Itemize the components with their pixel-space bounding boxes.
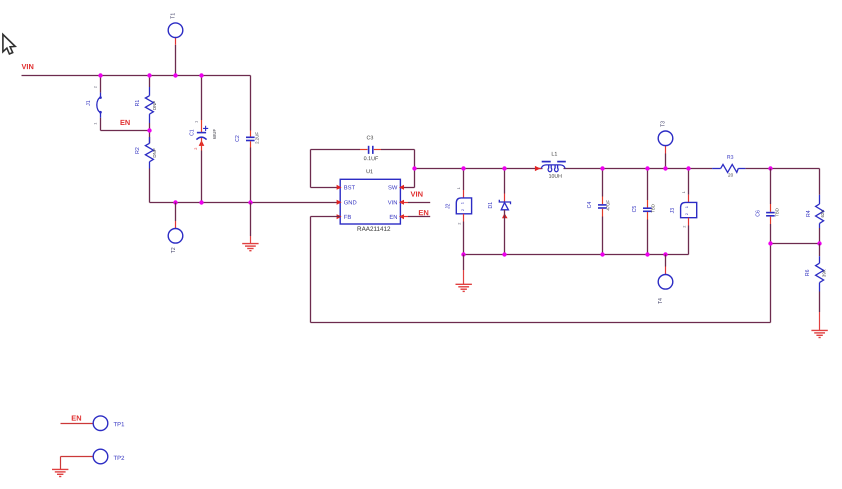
wire FB riser [310, 217, 312, 323]
svg-text:J3: J3 [670, 208, 676, 214]
svg-text:TP1: TP1 [113, 422, 125, 428]
svg-text:SW: SW [388, 185, 398, 191]
ground (input GND) [242, 203, 258, 251]
junction dots on left GND rail [173, 200, 252, 204]
capacitor C3 (bootstrap) [311, 135, 415, 162]
ground (testpoint) [52, 469, 68, 476]
svg-text:R2: R2 [135, 147, 141, 154]
wire EN pin stub [400, 216, 430, 218]
wire VIN top rail [22, 75, 251, 77]
resistor R1 [135, 76, 157, 131]
svg-text:T3: T3 [660, 121, 666, 127]
svg-text:2: 2 [193, 148, 198, 150]
resistor R3 [712, 155, 745, 178]
svg-text:R3: R3 [727, 155, 734, 161]
node R4/R6 junction [817, 241, 821, 245]
svg-text:J2: J2 [446, 203, 452, 209]
wire output corner to R4 [819, 169, 821, 195]
ground (feedback divider) [811, 330, 827, 337]
svg-text:EN: EN [418, 208, 428, 217]
svg-text:C4: C4 [587, 202, 593, 209]
capacitor C1 (polarized) [190, 76, 217, 203]
jumper J2 [446, 169, 472, 255]
svg-text:C1: C1 [190, 129, 196, 136]
svg-text:10UH: 10UH [549, 174, 563, 180]
resistor R6 [805, 244, 827, 331]
svg-text:R6: R6 [805, 269, 811, 276]
svg-text:TBD: TBD [775, 208, 780, 217]
testpoint T3 [658, 121, 673, 169]
svg-text:47UF: 47UF [606, 200, 611, 211]
svg-text:DNP: DNP [152, 148, 157, 157]
jumper J3 [670, 169, 697, 255]
wire BST horizontal [311, 187, 341, 189]
svg-text:2: 2 [681, 226, 686, 228]
svg-text:EN: EN [120, 118, 130, 127]
svg-text:68UF: 68UF [212, 129, 217, 140]
svg-text:1: 1 [681, 191, 686, 193]
svg-text:0.1UF: 0.1UF [364, 156, 379, 162]
node C6 bottom [768, 241, 772, 245]
capacitor C4 [587, 169, 610, 255]
svg-text:T4: T4 [658, 298, 664, 304]
capacitor C6 [755, 169, 779, 244]
svg-text:TP2: TP2 [113, 456, 125, 462]
resistor R4 [806, 195, 825, 244]
junction node EN divider [147, 128, 151, 132]
inductor L1 [535, 152, 566, 180]
svg-text:VIN: VIN [21, 62, 33, 71]
wire output bottom rail [464, 254, 689, 256]
svg-text:T2: T2 [171, 247, 177, 253]
ground (output GND) [456, 255, 472, 292]
svg-text:R1: R1 [135, 100, 141, 107]
svg-text:L1: L1 [551, 152, 557, 158]
op-amp U1 RAA211412 [337, 169, 404, 233]
wire SW output rail [415, 168, 820, 170]
capacitor C5 [632, 169, 656, 255]
svg-text:20: 20 [728, 173, 734, 178]
svg-text:C2: C2 [235, 135, 241, 142]
testpoint T2 [168, 203, 183, 254]
testpoint TP1 [93, 416, 125, 431]
svg-text:2: 2 [684, 213, 689, 215]
wire BST riser [310, 150, 312, 188]
resistor R2 [135, 131, 157, 203]
junction dots on VIN rail [98, 73, 203, 77]
svg-text:39K: 39K [821, 269, 826, 277]
testpoint TP2 [93, 449, 125, 464]
svg-text:EN: EN [389, 215, 397, 221]
wire SW horizontal [400, 187, 414, 189]
wire GND rail (left) [150, 202, 341, 204]
svg-text:R4: R4 [806, 210, 812, 217]
testpoint T1 [168, 13, 183, 76]
node SW [412, 166, 416, 170]
svg-text:BST: BST [344, 185, 356, 191]
junction dots on output rail [461, 166, 772, 170]
svg-text:1: 1 [194, 121, 199, 123]
wire feedback bottom run [311, 322, 771, 324]
capacitor C2 [235, 76, 260, 203]
wire C6 to R4 junction rail [771, 243, 820, 245]
wire GND to TP2 [61, 457, 94, 470]
mouse cursor [3, 34, 15, 54]
svg-text:TBD: TBD [651, 204, 656, 213]
svg-text:T1: T1 [171, 13, 177, 19]
svg-text:62K: 62K [820, 210, 825, 218]
junction dots on bottom rail [461, 252, 667, 256]
svg-text:1: 1 [684, 206, 689, 208]
wire EN jumper to divider [101, 130, 150, 132]
svg-text:C5: C5 [632, 206, 638, 213]
wire SW riser [414, 150, 416, 188]
svg-text:2: 2 [460, 209, 465, 211]
svg-text:RAA211412: RAA211412 [357, 226, 391, 233]
wire VIN pin stub [400, 202, 430, 204]
wire feedback right riser [770, 244, 772, 323]
wire EN to TP1 [61, 423, 94, 425]
testpoint T4 [658, 255, 673, 304]
jumper J1 [86, 76, 102, 131]
svg-text:J1: J1 [86, 100, 92, 106]
svg-text:C3: C3 [366, 135, 373, 141]
svg-text:DNP: DNP [152, 101, 157, 110]
svg-text:2: 2 [456, 223, 461, 225]
diode D1 (schottky) [488, 169, 510, 255]
svg-text:2: 2 [93, 86, 98, 88]
svg-text:1: 1 [459, 202, 464, 204]
svg-text:FB: FB [344, 215, 352, 221]
svg-text:C6: C6 [755, 210, 761, 217]
svg-text:EN: EN [71, 414, 81, 423]
svg-text:VIN: VIN [388, 200, 398, 206]
wire FB horizontal [311, 216, 341, 218]
svg-text:1: 1 [93, 123, 98, 125]
svg-text:VIN: VIN [410, 190, 423, 199]
svg-text:2.2UF: 2.2UF [254, 132, 259, 144]
svg-text:D1: D1 [488, 202, 494, 209]
svg-text:U1: U1 [366, 169, 373, 175]
svg-text:GND: GND [344, 200, 357, 206]
svg-text:1: 1 [456, 187, 461, 189]
